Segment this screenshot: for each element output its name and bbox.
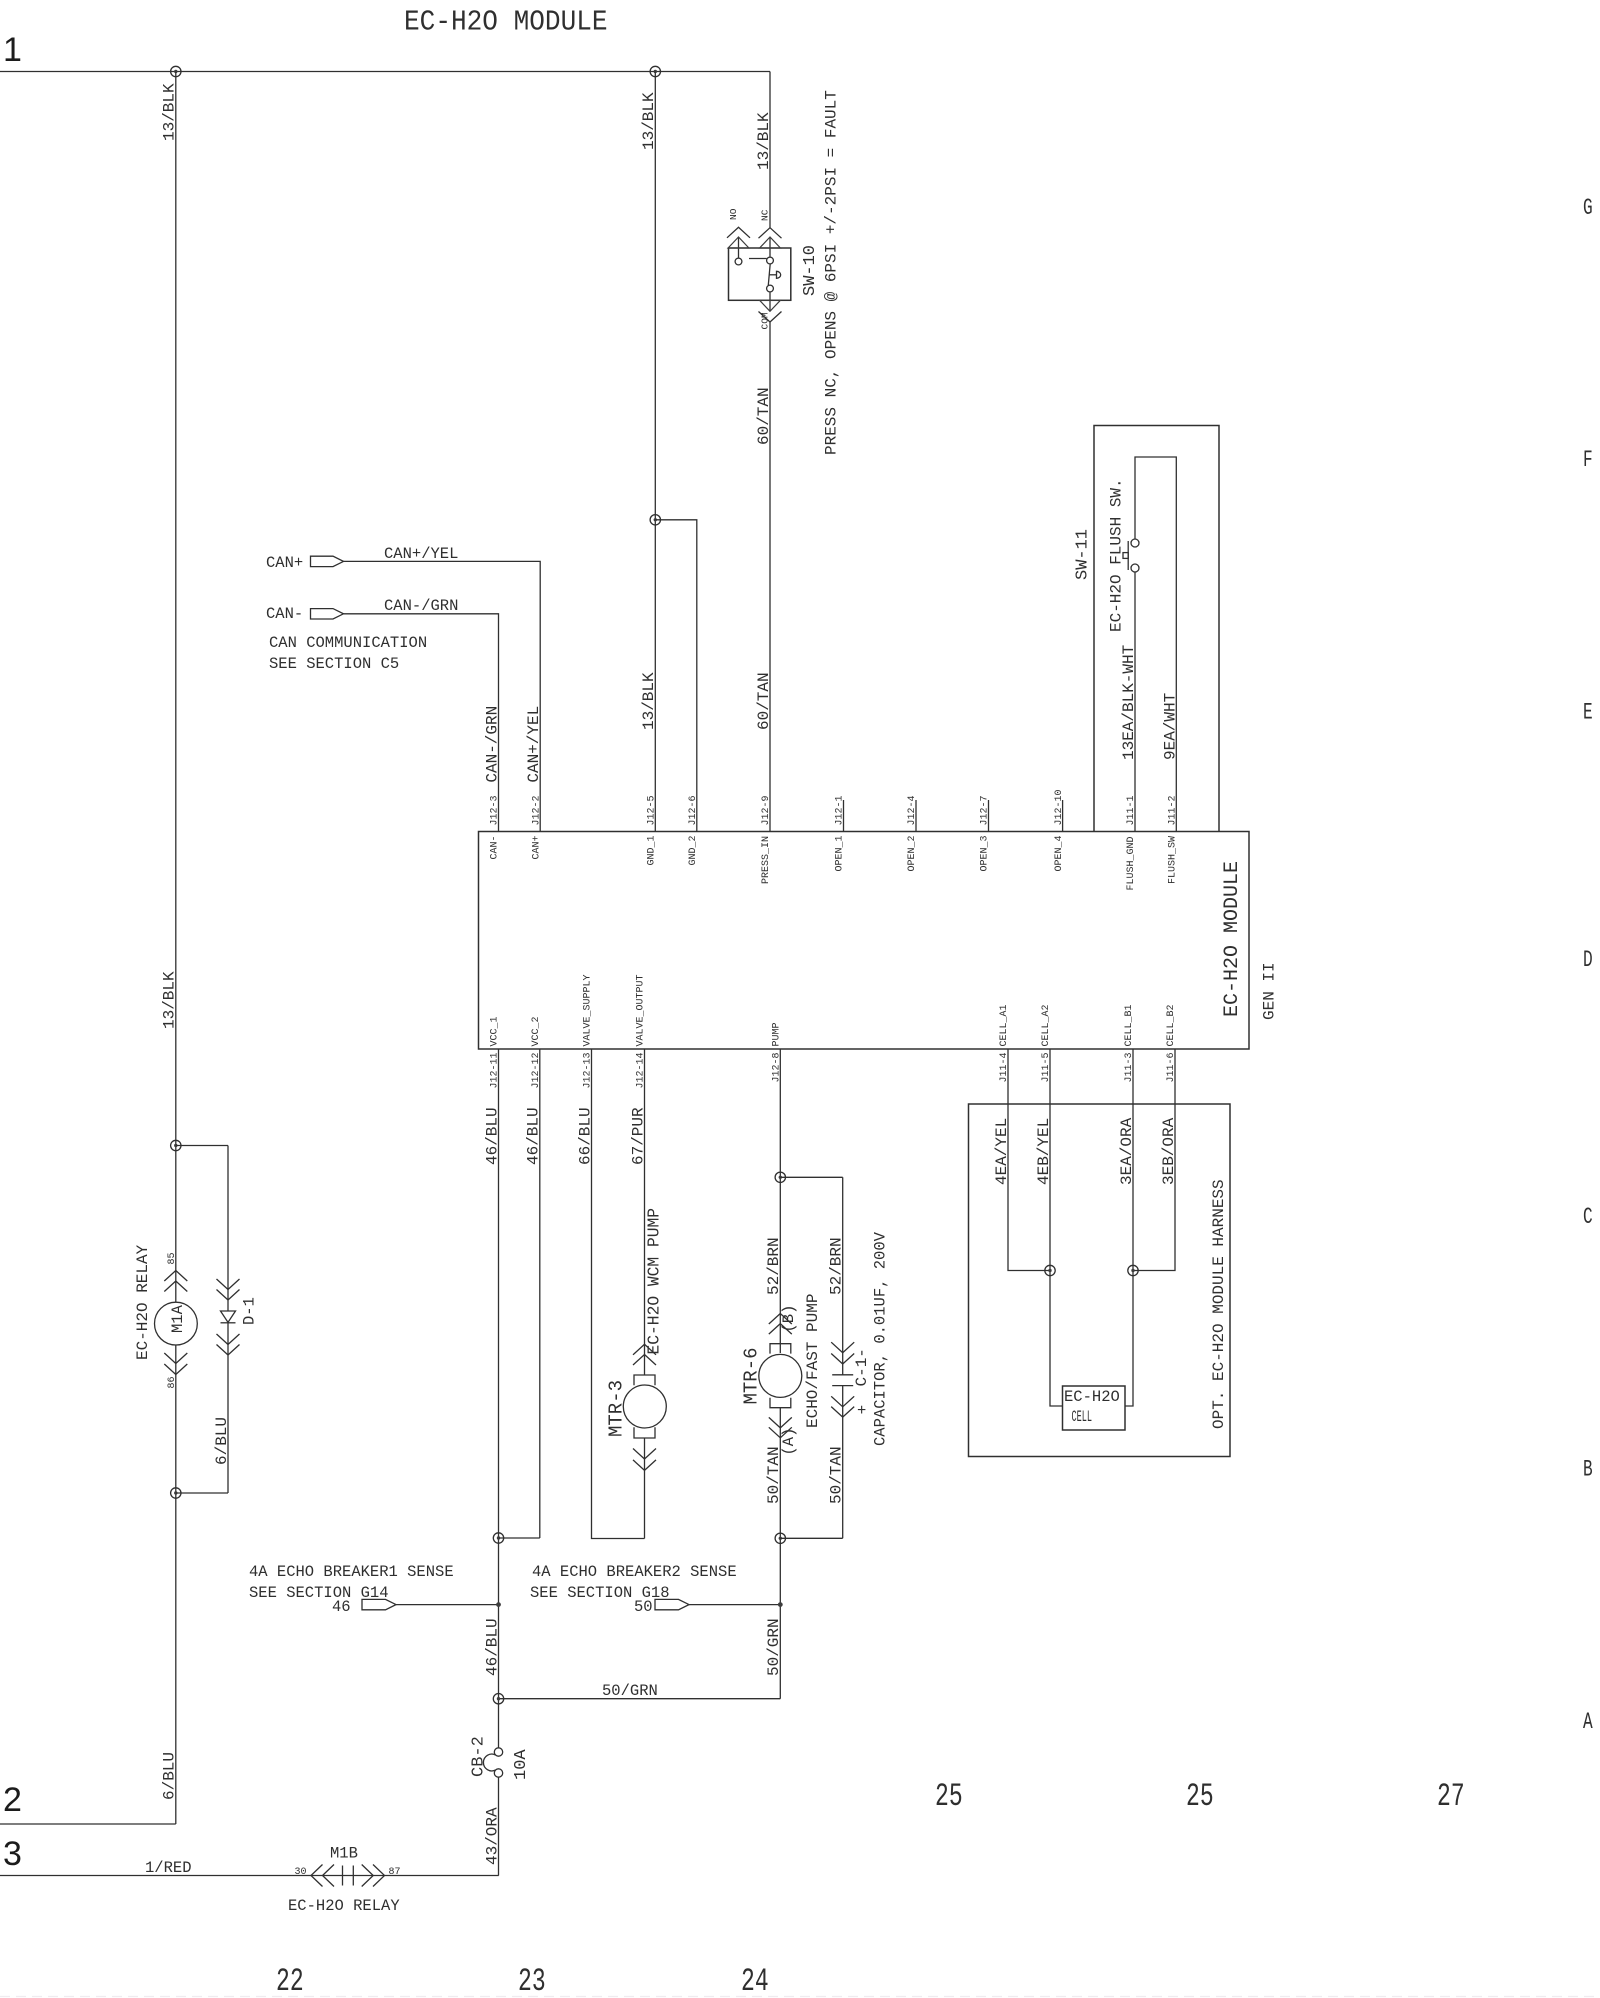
svg-text:67/PUR: 67/PUR [629, 1107, 647, 1165]
svg-text:GND_1: GND_1 [647, 835, 658, 865]
svg-text:23: 23 [518, 1965, 546, 1998]
wire VCC join horizontal [499, 1537, 540, 1539]
SW-10 NC terminal pin [759, 228, 782, 264]
flush switch SW-11 enclosure box [1094, 426, 1219, 832]
svg-text:G: G [1583, 194, 1593, 221]
svg-text:CAN+: CAN+ [266, 554, 303, 572]
junction W1 to relay branch bottom [171, 1488, 181, 1498]
svg-text:OPEN_4: OPEN_4 [1054, 835, 1065, 871]
capacitor branch vertical wire upper 52/BRN [842, 1177, 844, 1375]
svg-text:VALVE_OUTPUT: VALVE_OUTPUT [636, 974, 647, 1046]
svg-text:13EA/BLK-WHT: 13EA/BLK-WHT [1120, 645, 1138, 760]
svg-text:50: 50 [634, 1598, 653, 1616]
diode D-1 connector chevrons upper [217, 1279, 240, 1300]
svg-text:MTR-6: MTR-6 [741, 1347, 763, 1404]
capacitor branch top horizontal wire [780, 1176, 842, 1178]
svg-text:60/TAN: 60/TAN [755, 387, 773, 445]
svg-text:SW-11: SW-11 [1074, 529, 1093, 580]
svg-text:F: F [1583, 446, 1593, 473]
svg-text:25: 25 [1186, 1780, 1214, 1816]
svg-text:MTR-3: MTR-3 [606, 1380, 628, 1437]
svg-text:J12-4: J12-4 [907, 795, 918, 825]
wire D-1 branch vertical [227, 1146, 229, 1494]
svg-text:52/BRN: 52/BRN [765, 1237, 783, 1295]
wire 50/GRN horizontal [499, 1698, 781, 1700]
svg-text:30: 30 [295, 1867, 307, 1878]
capacitor C-1 top connector chevrons [831, 1342, 854, 1364]
svg-text:10A: 10A [512, 1749, 531, 1780]
SW-10 internal contact linkage [749, 259, 781, 286]
svg-text:CAN-/GRN: CAN-/GRN [483, 706, 501, 783]
wire W1 vertical 13/BLK-6/BLU x=175.8 [175, 72, 177, 1825]
wire W4 vertical 13/BLK to SW-10 x=770 [769, 72, 771, 228]
junction on W2 at y=519.8 [650, 515, 660, 525]
junction capacitor branch top [775, 1172, 785, 1182]
junction capacitor branch bottom [775, 1533, 785, 1543]
wire rail row3 segment right of M1B to 43/ORA riser [385, 1875, 499, 1877]
svg-text:J12-9: J12-9 [761, 795, 772, 825]
svg-text:OPEN_2: OPEN_2 [907, 835, 918, 871]
wire top rail row1 13/BLK [0, 71, 770, 73]
wire CAN-/GRN horizontal then down to J12-3 [344, 614, 499, 832]
svg-text:CAPACITOR, 0.01UF, 200V: CAPACITOR, 0.01UF, 200V [872, 1231, 890, 1446]
harness enclosure box OPT. EC-H2O MODULE HARNESS [969, 1104, 1231, 1457]
svg-text:PUMP: PUMP [772, 1022, 783, 1046]
wire W3 branch GND_2 [655, 520, 697, 832]
SW-10 NO terminal pin [727, 227, 750, 265]
wire W9 VALVE_OUTPUT 67/PUR down to MTR-3 [644, 1049, 646, 1375]
SW-10 COM terminal pin [759, 285, 782, 322]
svg-text:CB-2: CB-2 [470, 1736, 489, 1777]
junction on rail1 at x=655.3 [650, 66, 660, 76]
svg-text:VCC_2: VCC_2 [531, 1016, 542, 1046]
motor MTR-3 bottom wire [644, 1438, 646, 1539]
pin stub J12-4 OPEN_2 [915, 800, 917, 832]
motor MTR-6 symbol [759, 1344, 802, 1408]
svg-text:85: 85 [167, 1252, 178, 1264]
svg-text:EC-H2O: EC-H2O [1064, 1388, 1120, 1406]
svg-text:J12-2: J12-2 [531, 795, 542, 825]
wire W8 VALVE_SUPPLY 66/BLU [592, 1049, 645, 1539]
svg-text:50/GRN: 50/GRN [602, 1682, 658, 1700]
svg-text:13/BLK: 13/BLK [161, 83, 179, 141]
svg-text:VALVE_SUPPLY: VALVE_SUPPLY [583, 974, 594, 1046]
svg-text:NC: NC [760, 209, 771, 221]
svg-text:50/GRN: 50/GRN [765, 1618, 783, 1676]
svg-text:COM: COM [760, 312, 771, 329]
svg-text:EC-H2O MODULE: EC-H2O MODULE [404, 6, 608, 39]
junction dot 50 sense [778, 1602, 783, 1607]
motor MTR-6 bottom connector chevrons [769, 1417, 792, 1437]
svg-text:OPEN_1: OPEN_1 [835, 835, 846, 871]
svg-text:J12-6: J12-6 [688, 795, 699, 825]
wire 43/ORA from CB-2 down to rail3 [498, 1777, 500, 1875]
svg-text:EC-H2O RELAY: EC-H2O RELAY [288, 1897, 400, 1915]
EC-H2O CELL box [1063, 1386, 1126, 1430]
svg-text:J12-5: J12-5 [647, 795, 658, 825]
wire D-1 branch bottom horizontal [176, 1492, 228, 1494]
svg-text:50/TAN: 50/TAN [828, 1446, 846, 1504]
svg-text:GEN II: GEN II [1261, 962, 1279, 1020]
svg-text:OPT. EC-H2O MODULE HARNESS: OPT. EC-H2O MODULE HARNESS [1210, 1179, 1228, 1429]
net 50 connector arrow [655, 1599, 689, 1609]
svg-text:CAN+/YEL: CAN+/YEL [525, 706, 543, 783]
svg-text:87: 87 [389, 1867, 401, 1878]
svg-text:3: 3 [3, 1835, 22, 1873]
svg-text:SEE SECTION C5: SEE SECTION C5 [269, 655, 399, 673]
svg-text:4EB/YEL: 4EB/YEL [1035, 1118, 1053, 1185]
motor MTR-3 symbol [623, 1375, 666, 1438]
svg-text:50/TAN: 50/TAN [765, 1446, 783, 1504]
svg-text:D: D [1583, 946, 1593, 973]
svg-text:6/BLU: 6/BLU [213, 1417, 231, 1465]
svg-text:CAN+: CAN+ [531, 835, 542, 859]
svg-text:C: C [1583, 1203, 1593, 1230]
svg-text:13/BLK: 13/BLK [161, 971, 179, 1029]
svg-text:EC-H2O MODULE: EC-H2O MODULE [1221, 861, 1244, 1017]
svg-text:CELL_B2: CELL_B2 [1166, 1004, 1177, 1046]
svg-text:60/TAN: 60/TAN [755, 672, 773, 730]
svg-text:FLUSH_GND: FLUSH_GND [1126, 836, 1137, 890]
circuit breaker CB-2 symbol [483, 1748, 502, 1777]
svg-text:22: 22 [276, 1965, 304, 1998]
svg-text:9EA/WHT: 9EA/WHT [1161, 693, 1179, 760]
svg-text:J12-7: J12-7 [980, 795, 991, 825]
wire W2 vertical GND_1 13/BLK x=655.3 [654, 72, 656, 832]
svg-text:46/BLU: 46/BLU [525, 1107, 543, 1165]
pushbutton switch SW-11 contacts [1123, 539, 1139, 572]
svg-text:46/BLU: 46/BLU [483, 1107, 501, 1165]
svg-text:CAN+/YEL: CAN+/YEL [384, 545, 458, 563]
svg-text:CELL: CELL [1072, 1409, 1092, 1426]
svg-text:D-1: D-1 [241, 1297, 259, 1325]
pressure switch SW-10 body [729, 248, 791, 300]
wire W5 vertical 60/TAN SW-10 COM to PRESS_IN x=770 [769, 322, 771, 832]
svg-text:3EA/ORA: 3EA/ORA [1118, 1117, 1136, 1185]
wire rail row3 1/RED y=1875.5 left segment [0, 1875, 311, 1877]
svg-text:M1A: M1A [169, 1304, 187, 1333]
junction dot 46 sense [496, 1602, 501, 1607]
page bottom edge line [0, 1996, 1600, 1998]
junction on rail1 at x=175.8 [171, 66, 181, 76]
svg-text:66/BLU: 66/BLU [576, 1107, 594, 1165]
CAN+ connector arrow [311, 556, 344, 566]
svg-text:+: + [857, 1402, 866, 1420]
svg-text:CELL_A2: CELL_A2 [1041, 1004, 1052, 1046]
svg-text:46: 46 [332, 1598, 351, 1616]
wire CELL_B2 3EB/ORA [1133, 1049, 1175, 1271]
svg-text:A: A [1583, 1708, 1593, 1735]
capacitor C-1 bottom connector chevrons [831, 1396, 854, 1417]
wire CAN+/YEL horizontal then down to J12-2 [344, 561, 541, 831]
svg-text:CELL_B1: CELL_B1 [1124, 1004, 1135, 1046]
svg-text:EC-H2O RELAY: EC-H2O RELAY [134, 1244, 152, 1360]
motor MTR-3 bottom connector chevrons [633, 1449, 656, 1471]
wire D-1 branch top horizontal [176, 1145, 228, 1147]
wire 50 sense to W10 [689, 1604, 780, 1606]
svg-text:VCC_1: VCC_1 [490, 1016, 501, 1046]
svg-text:4A ECHO BREAKER1 SENSE: 4A ECHO BREAKER1 SENSE [249, 1563, 454, 1581]
pin stub J12-7 OPEN_3 [988, 800, 990, 832]
motor MTR-3 top connector chevrons [633, 1344, 656, 1365]
svg-text:GND_2: GND_2 [688, 835, 699, 865]
svg-text:CAN COMMUNICATION: CAN COMMUNICATION [269, 634, 427, 652]
svg-text:1: 1 [3, 31, 22, 69]
relay coil M1A circle [155, 1302, 198, 1345]
relay contact M1B symbol [311, 1865, 385, 1887]
wire 46 sense to W6 [396, 1604, 499, 1606]
svg-text:CAN-: CAN- [266, 605, 303, 623]
motor MTR-6 bottom wire [779, 1408, 781, 1699]
svg-text:M1B: M1B [330, 1845, 358, 1863]
svg-text:46/BLU: 46/BLU [483, 1618, 501, 1676]
svg-text:EC-H2O WCM PUMP: EC-H2O WCM PUMP [645, 1208, 664, 1355]
svg-text:43/ORA: 43/ORA [483, 1807, 501, 1865]
junction W1 to relay branch top [171, 1140, 181, 1150]
diode D-1 symbol [221, 1311, 236, 1323]
junction cell A wires [1045, 1265, 1055, 1275]
svg-text:1/RED: 1/RED [145, 1859, 192, 1877]
wire J11-1 FLUSH_GND up to switch [1134, 572, 1136, 832]
net 46 connector arrow [362, 1599, 396, 1609]
svg-text:PRESS NC, OPENS @ 6PSI +/-2PSI: PRESS NC, OPENS @ 6PSI +/-2PSI = FAULT [823, 90, 841, 455]
svg-text:CAN-/GRN: CAN-/GRN [384, 597, 458, 615]
wire W6 VCC_1 46/BLU down from J12-11 [498, 1049, 500, 1748]
wire CELL_B1 3EA/ORA [1125, 1049, 1133, 1406]
svg-text:E: E [1583, 699, 1593, 726]
svg-text:J12-10: J12-10 [1054, 789, 1065, 825]
wire CELL_A2 4EB/YEL [1050, 1049, 1063, 1406]
svg-text:SW-10: SW-10 [801, 245, 820, 296]
svg-text:C-1-: C-1- [853, 1348, 871, 1386]
capacitor C-1 symbol [832, 1375, 853, 1386]
svg-text:CAN-: CAN- [490, 835, 501, 859]
wire W10 PUMP 52/BRN down from J12-8 [779, 1049, 781, 1353]
svg-text:PRESS_IN: PRESS_IN [761, 836, 772, 884]
svg-text:2: 2 [3, 1781, 22, 1819]
svg-text:J12-1: J12-1 [835, 795, 846, 825]
svg-text:ECHO/FAST PUMP: ECHO/FAST PUMP [804, 1294, 822, 1428]
CAN- connector arrow [311, 609, 344, 619]
wire rail row2 y=1824 [0, 1823, 176, 1825]
svg-text:24: 24 [741, 1965, 769, 1998]
svg-text:3EB/ORA: 3EB/ORA [1160, 1117, 1178, 1185]
svg-text:13/BLK: 13/BLK [640, 672, 658, 730]
svg-text:6/BLU: 6/BLU [161, 1752, 179, 1800]
svg-text:(B): (B) [780, 1305, 798, 1333]
svg-text:4EA/YEL: 4EA/YEL [993, 1118, 1011, 1185]
relay coil M1A pin 85 connector chevrons [164, 1271, 187, 1292]
svg-text:52/BRN: 52/BRN [828, 1237, 846, 1295]
junction at CB-2 top [493, 1694, 503, 1704]
capacitor branch vertical wire lower 50/TAN [842, 1386, 844, 1539]
svg-text:13/BLK: 13/BLK [640, 92, 658, 150]
svg-text:86: 86 [167, 1376, 178, 1388]
EC-H2O module main box U1 [479, 832, 1250, 1050]
svg-text:4A ECHO BREAKER2 SENSE: 4A ECHO BREAKER2 SENSE [532, 1563, 737, 1581]
svg-text:NO: NO [728, 208, 739, 220]
svg-text:13/BLK: 13/BLK [755, 112, 773, 170]
svg-text:OPEN_3: OPEN_3 [980, 835, 991, 871]
wire W7 VCC_2 46/BLU down from J12-12 [539, 1049, 541, 1538]
relay coil M1A pin 86 connector chevrons [164, 1353, 187, 1375]
junction VCC wires join [493, 1533, 503, 1543]
motor MTR-6 top connector chevrons [769, 1314, 792, 1335]
svg-text:CELL_A1: CELL_A1 [999, 1004, 1010, 1046]
pin stub J12-1 OPEN_1 [843, 800, 845, 832]
capacitor branch bottom horizontal wire [780, 1537, 842, 1539]
svg-text:J12-3: J12-3 [490, 795, 501, 825]
svg-text:27: 27 [1437, 1780, 1465, 1816]
svg-text:25: 25 [935, 1780, 963, 1816]
wire from switch up and over to J11-2 FLUSH_SW [1135, 457, 1176, 832]
diode D-1 connector chevrons lower [217, 1334, 240, 1355]
svg-text:FLUSH_SW: FLUSH_SW [1168, 836, 1179, 884]
junction cell B wires [1128, 1265, 1138, 1275]
wire CELL_A1 4EA/YEL [1008, 1049, 1050, 1271]
svg-text:B: B [1583, 1456, 1593, 1483]
pin stub J12-10 OPEN_4 [1062, 800, 1064, 832]
